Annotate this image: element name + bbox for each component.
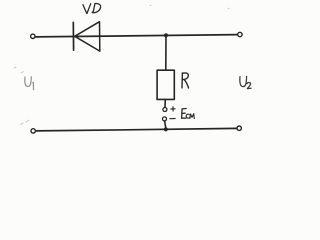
bias terminal + (circle): [163, 108, 167, 112]
terminal right-top: [238, 32, 242, 36]
node junction bottom (dot): [164, 127, 168, 131]
label Eсм: [182, 109, 195, 119]
terminal left-bottom: [31, 129, 35, 133]
minus sign: [170, 118, 175, 120]
bias terminal - (circle): [163, 117, 167, 121]
resistor R body: [157, 70, 174, 99]
plus sign: [171, 107, 175, 111]
label V.D: [83, 3, 101, 13]
wire bottom horizontal: [36, 128, 237, 131]
wire bias to bottom junction: [165, 121, 166, 127]
diode VD cathode bar: [72, 22, 74, 50]
faint scan speckles (decorative): [14, 5, 229, 124]
label U1: [25, 77, 34, 90]
wire resistor to bias terminal: [164, 99, 166, 107]
terminal left-top: [31, 34, 35, 38]
node junction top (dot): [164, 33, 168, 37]
label R: [182, 73, 189, 88]
label U2: [240, 76, 251, 88]
terminal right-bottom: [237, 126, 241, 130]
wire junction to resistor: [165, 35, 167, 70]
wire top horizontal: [35, 35, 237, 37]
diode VD triangle: [75, 22, 100, 51]
